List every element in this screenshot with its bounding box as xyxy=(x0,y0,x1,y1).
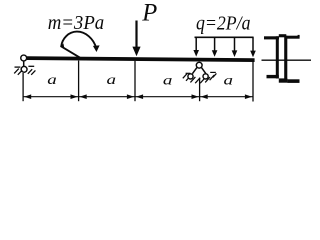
q arrow 1 xyxy=(195,37,197,51)
cross-section left channel bottom flange xyxy=(267,75,279,78)
q arrow 2 xyxy=(214,37,216,51)
support A hinge circle xyxy=(21,55,27,61)
extension line x=199.3 xyxy=(199,78,201,101)
support B left roller xyxy=(188,74,193,79)
support B hinge circle xyxy=(196,62,202,68)
cross-section axis line xyxy=(262,59,312,61)
support A ground left wing xyxy=(15,66,21,68)
cross-section right flange end nub xyxy=(298,35,300,37)
cross-section right channel web xyxy=(284,36,287,80)
svg-text:a: a xyxy=(47,73,57,88)
svg-text:P: P xyxy=(141,0,157,26)
extension line x=135 xyxy=(134,61,136,101)
extension line x=253 xyxy=(252,61,254,101)
extension line x=23 xyxy=(22,73,24,101)
moment arrowhead xyxy=(93,45,100,52)
dimension line segment 1 xyxy=(23,96,79,98)
support B ground right wing xyxy=(210,71,216,73)
support A hatching xyxy=(14,69,35,75)
dimension line segment 4 xyxy=(200,96,253,98)
svg-text:q=2P/a: q=2P/a xyxy=(196,13,251,34)
cross-section top cap xyxy=(279,34,287,37)
support B hatching xyxy=(183,73,217,83)
cross-section left channel top flange xyxy=(264,36,279,39)
support B right roller xyxy=(203,74,208,79)
support B left leg xyxy=(192,68,197,74)
cross-section bottom cap xyxy=(279,78,288,82)
dimension line segment 3 xyxy=(135,96,200,98)
svg-text:a: a xyxy=(224,74,234,89)
support A roller circle xyxy=(21,66,27,72)
extension line x=78.6 xyxy=(78,61,80,102)
svg-text:a: a xyxy=(163,74,173,89)
support A link xyxy=(23,61,25,66)
cross-section right channel top flange xyxy=(286,36,299,39)
moment arc kink wedge xyxy=(61,43,65,47)
support A ground right wing xyxy=(28,65,34,67)
q arrow 4 xyxy=(252,37,254,51)
svg-text:a: a xyxy=(107,73,117,88)
distributed load line xyxy=(195,36,254,38)
support B ground left wing xyxy=(186,72,191,74)
moment m arc xyxy=(61,32,96,58)
cross-section right channel bottom flange xyxy=(287,79,299,83)
beam xyxy=(27,58,255,60)
support B right leg xyxy=(202,68,206,74)
cross-section left channel web xyxy=(276,36,279,78)
dimension line segment 2 xyxy=(79,96,135,98)
force P arrow shaft xyxy=(135,21,137,50)
q arrow 3 xyxy=(234,37,236,51)
svg-text:m=3Pa: m=3Pa xyxy=(48,13,105,34)
force P arrowhead xyxy=(132,47,140,57)
